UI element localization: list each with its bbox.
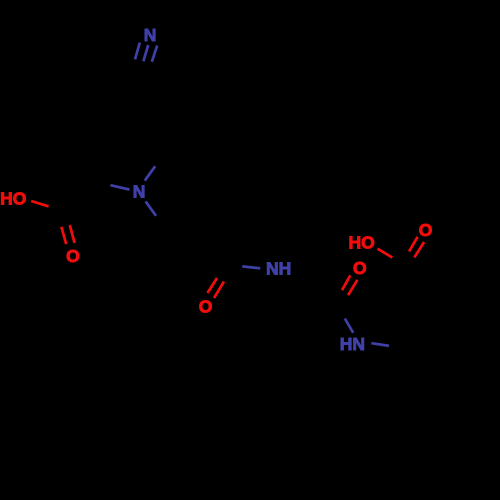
amide 2 C=O double bond, right line (red half) <box>348 280 357 295</box>
amide 2 C=O double bond, left line (red half) <box>342 275 350 290</box>
benzoic acid C=O double bond, right line (red half) <box>414 242 424 258</box>
svg-text:O: O <box>199 297 213 317</box>
nitrile triple bond C#N (blue N-half), left line <box>135 43 140 60</box>
svg-text:N: N <box>144 25 157 45</box>
svg-text:O: O <box>353 258 367 278</box>
svg-text:O: O <box>66 246 80 266</box>
carboxylic acid C=O double bond, left line (red half) <box>61 227 66 244</box>
benzoic acid O-C bond (red half from HO) <box>378 249 393 258</box>
HN to phenyl ring bond (blue half, right stub) <box>371 343 389 346</box>
amide 2 C-NH bond (blue half, above HN) <box>345 319 353 333</box>
carboxylic acid C=O double bond, right line (red half) <box>70 225 75 243</box>
carboxylic acid O-C bond (red half from HO) <box>31 201 48 206</box>
svg-text:N: N <box>133 182 146 202</box>
svg-text:O: O <box>419 220 433 240</box>
svg-text:NH: NH <box>266 259 291 279</box>
amide 1 C=O double bond, right line (red half) <box>214 282 224 299</box>
amide 1 C=O double bond, left line (red half) <box>208 278 218 293</box>
pyrrolidine N to CH2 chain bond (blue half, down-right) <box>146 201 156 215</box>
pyrrolidine N to C2 bond (blue half, left) <box>111 185 130 189</box>
svg-text:HN: HN <box>340 334 365 354</box>
pyrrolidine N to C5 bond (blue half, up-right) <box>145 166 155 180</box>
nitrile triple bond, right line <box>152 46 157 62</box>
nitrile triple bond, middle line <box>143 45 148 61</box>
benzoic acid C=O double bond, left line (red half) <box>409 237 418 252</box>
amide 1 C-NH bond (blue half, left stub of NH) <box>242 266 260 268</box>
svg-text:HO: HO <box>0 189 26 209</box>
svg-text:HO: HO <box>348 233 374 253</box>
